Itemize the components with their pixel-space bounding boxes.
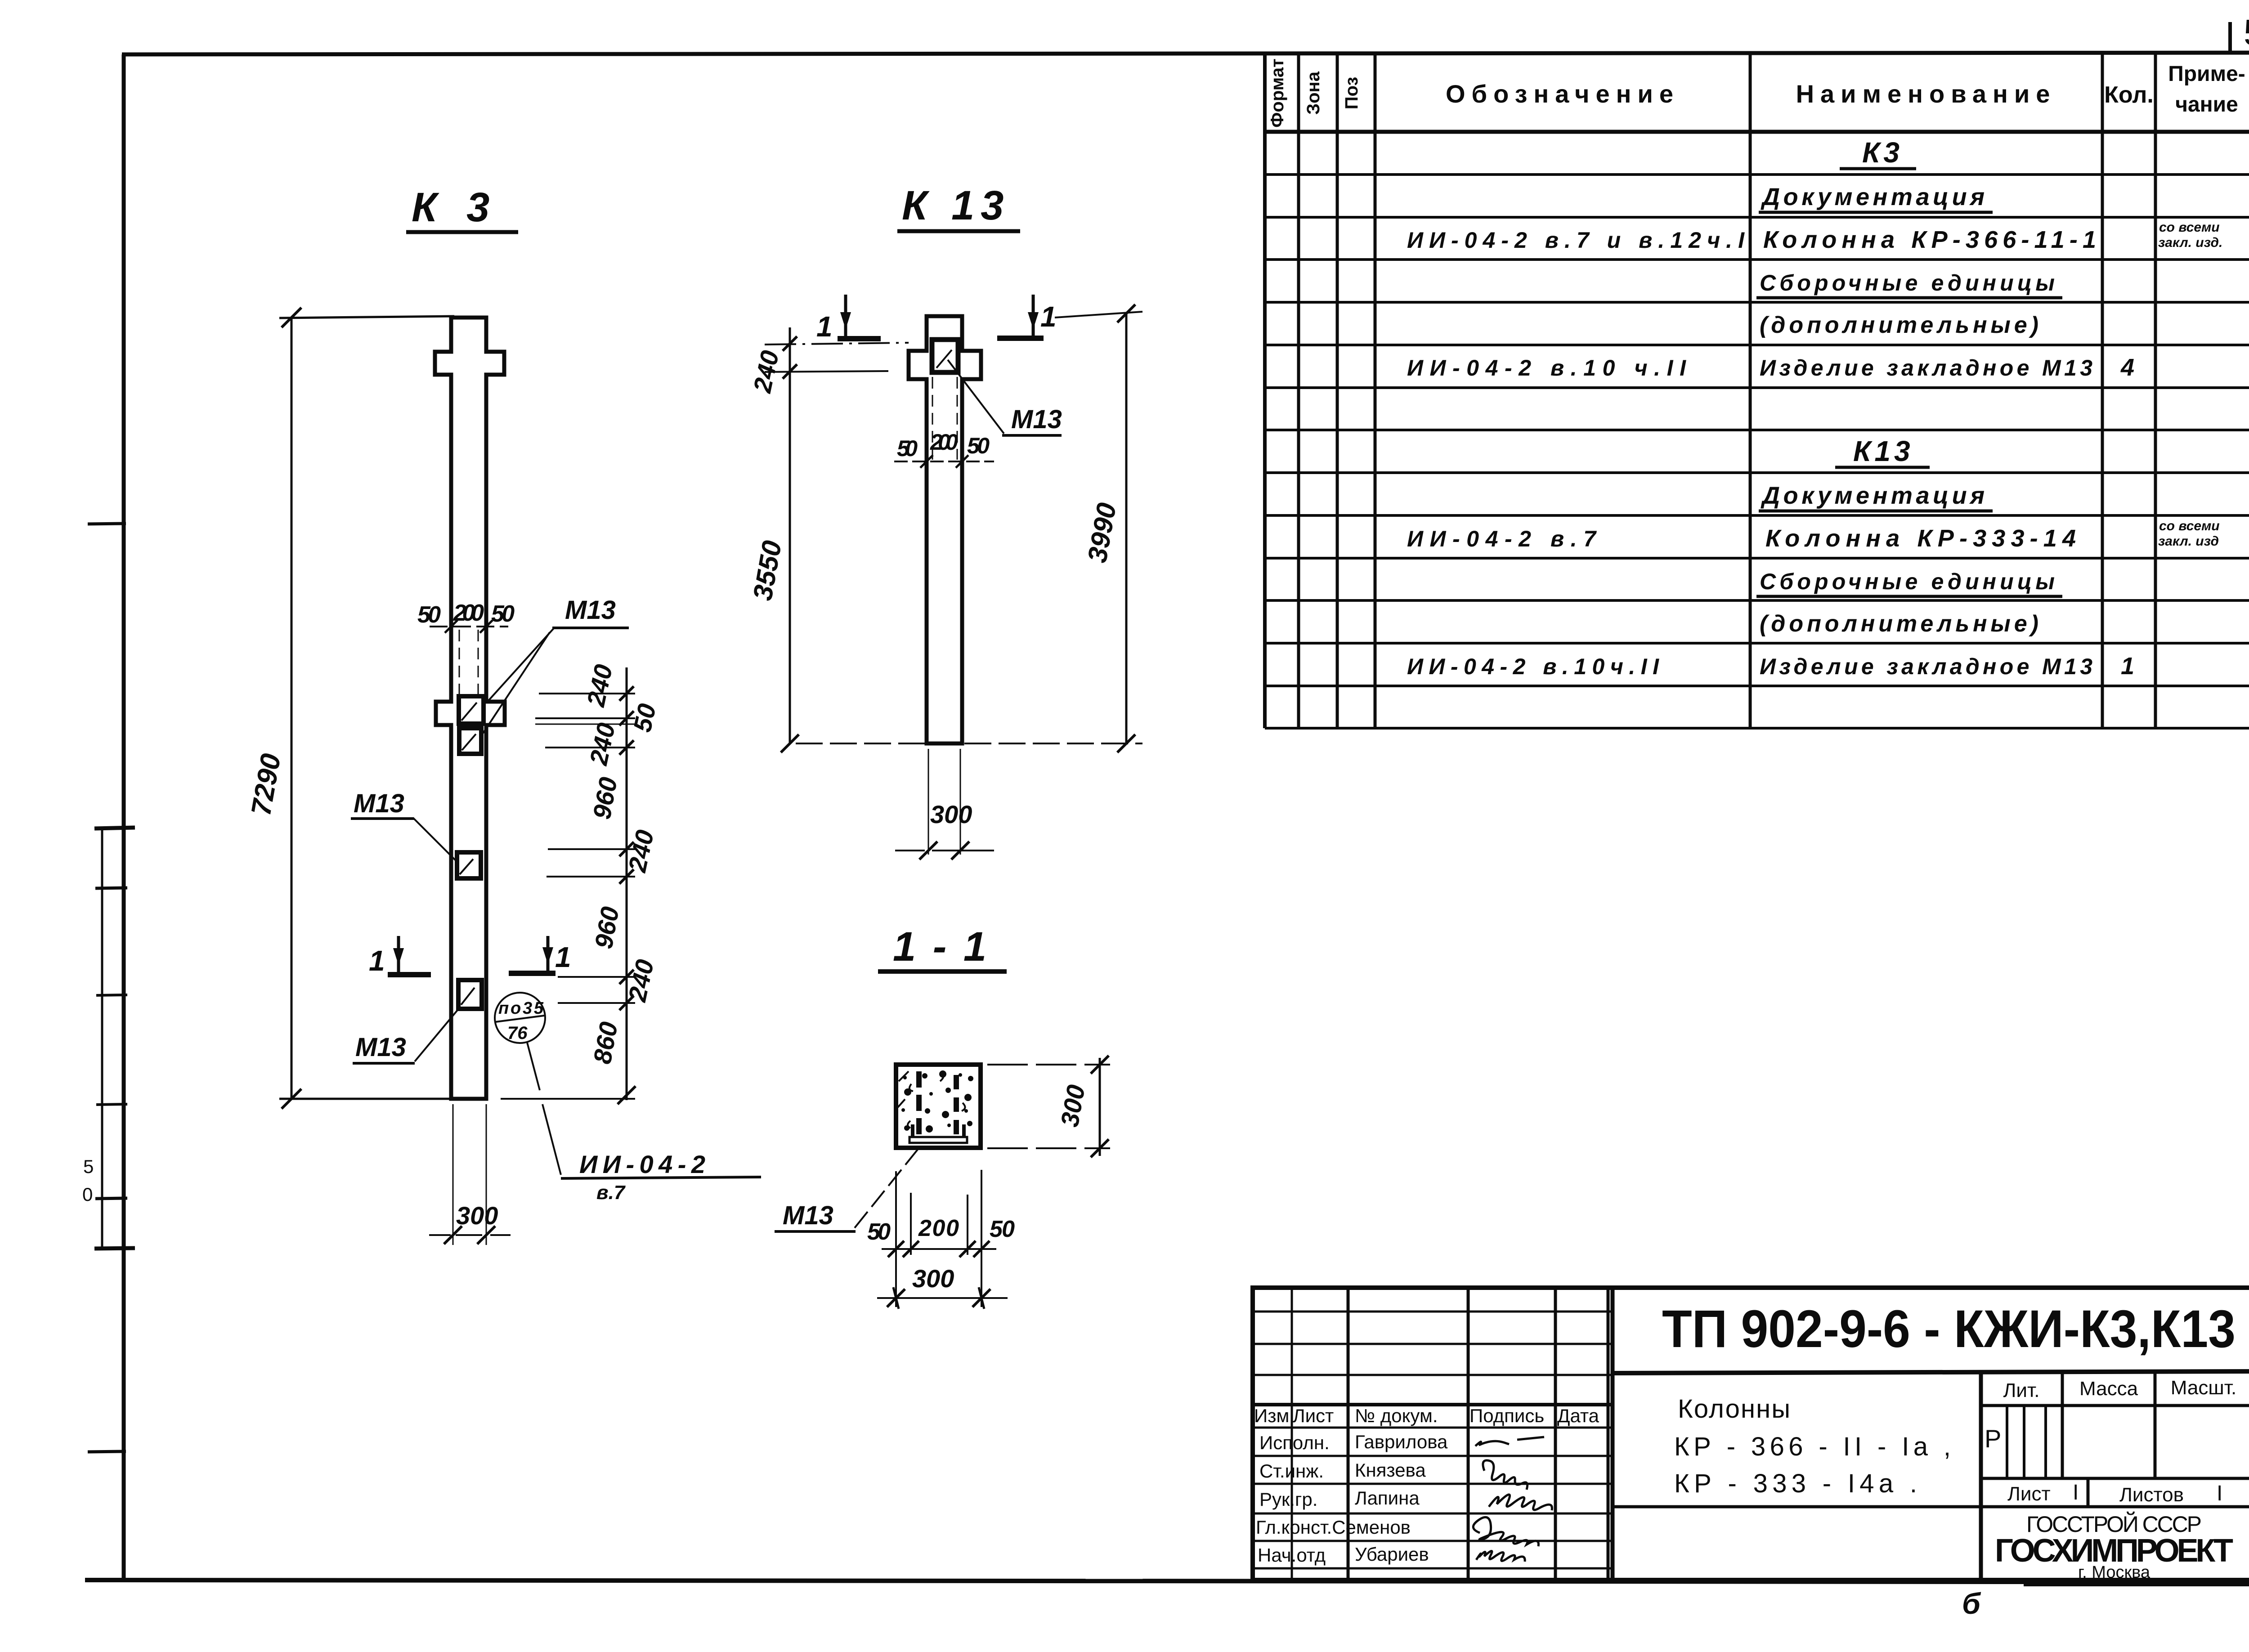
detail reference circle po35/76: [495, 993, 545, 1043]
svg-text:Обозначение: Обозначение: [1446, 80, 1680, 108]
svg-text:50: 50: [628, 701, 662, 734]
svg-text:Князева: Князева: [1355, 1459, 1426, 1481]
svg-text:50: 50: [491, 601, 515, 627]
K13 right dimension 3990: [1125, 313, 1128, 743]
svg-text:Лист: Лист: [2007, 1483, 2051, 1505]
signature rows: [1256, 1431, 1448, 1566]
svg-text:50: 50: [990, 1216, 1015, 1242]
section 1-1 bottom dimensions 50 200 50 and 300: [895, 1171, 897, 1307]
svg-text:(дополнительные): (дополнительные): [1760, 611, 2038, 637]
svg-text:1: 1: [2121, 653, 2134, 680]
svg-text:300: 300: [456, 1201, 498, 1230]
svg-text:К 3: К 3: [412, 184, 498, 230]
svg-text:Ст.инж.: Ст.инж.: [1259, 1460, 1324, 1482]
svg-text:Лит.: Лит.: [2003, 1379, 2040, 1401]
concrete texture speckles: [901, 1070, 973, 1133]
svg-text:КР - 333 - I4а .: КР - 333 - I4а .: [1674, 1469, 1917, 1498]
svg-text:закл. изд.: закл. изд.: [2158, 235, 2222, 250]
sheet number 5 top right: [2228, 22, 2232, 51]
column K13 outline: [909, 316, 981, 743]
specification table grid: [1265, 54, 2249, 728]
svg-text:1: 1: [816, 310, 833, 343]
svg-text:0: 0: [82, 1184, 93, 1205]
svg-text:Документация: Документация: [1761, 184, 1987, 210]
section 1-1 concrete square: [896, 1065, 981, 1148]
signature column header row: [1254, 1405, 1599, 1426]
left margin fold ladder: [88, 524, 135, 1452]
svg-text:М13: М13: [783, 1201, 833, 1230]
svg-text:76: 76: [507, 1023, 528, 1043]
svg-text:1: 1: [555, 941, 571, 973]
column K3 bottom edge: [451, 1097, 486, 1101]
svg-text:Р: Р: [1985, 1424, 2001, 1453]
svg-text:со всеми: со всеми: [2159, 220, 2220, 235]
svg-text:№ докум.: № докум.: [1355, 1405, 1438, 1426]
svg-text:Гаврилова: Гаврилова: [1355, 1431, 1448, 1452]
svg-text:4: 4: [2120, 354, 2134, 381]
section mark 1 right (K3): [509, 971, 556, 976]
svg-text:Рук.гр.: Рук.гр.: [1259, 1489, 1317, 1510]
svg-text:1: 1: [1040, 300, 1057, 333]
section 1-1 right dimension 300: [987, 1064, 1110, 1066]
svg-text:(дополнительные): (дополнительные): [1760, 312, 2038, 338]
embedded plate M13 in section: [909, 1137, 967, 1143]
svg-text:Формат: Формат: [1268, 58, 1287, 127]
K3 right dimension chain line: [626, 667, 628, 1100]
svg-text:К3: К3: [1862, 136, 1903, 169]
svg-text:М13: М13: [1011, 405, 1062, 434]
svg-text:Сборочные единицы: Сборочные единицы: [1760, 270, 2056, 295]
svg-text:М13: М13: [355, 1033, 406, 1062]
svg-text:Исполн.: Исполн.: [1259, 1432, 1330, 1453]
svg-text:50: 50: [867, 1219, 891, 1245]
embedded plate M13 (K13): [932, 340, 958, 372]
svg-text:Подпись: Подпись: [1469, 1405, 1544, 1426]
svg-text:Лист: Лист: [1293, 1405, 1334, 1426]
svg-text:Кол.: Кол.: [2104, 82, 2154, 108]
svg-text:К 13: К 13: [902, 183, 1010, 228]
K13 left dimensions 240 and 3550: [789, 327, 791, 743]
svg-text:I: I: [2073, 1481, 2079, 1504]
svg-text:закл. изд: закл. изд: [2158, 534, 2219, 549]
table content K13 section: [1407, 435, 2220, 680]
svg-text:б: б: [1962, 1587, 1981, 1620]
title block subject: [1674, 1394, 1951, 1498]
embedded plate M13 no.2: [459, 728, 481, 754]
svg-text:Наименование: Наименование: [1796, 80, 2056, 108]
svg-text:Документация: Документация: [1761, 482, 1987, 509]
svg-text:Сборочные единицы: Сборочные единицы: [1760, 569, 2056, 594]
svg-text:г. Москва: г. Москва: [2078, 1563, 2150, 1582]
svg-text:300: 300: [912, 1264, 954, 1293]
embedded plate M13 no.1: [459, 696, 484, 724]
svg-text:ТП 902-9-6 - КЖИ-К3,К13: ТП 902-9-6 - КЖИ-К3,К13: [1662, 1299, 2236, 1359]
section mark 1 right (K13): [997, 336, 1044, 341]
svg-text:5: 5: [83, 1156, 94, 1177]
svg-text:Приме-: Приме-: [2168, 62, 2245, 86]
svg-text:К13: К13: [1853, 435, 1914, 467]
svg-text:50: 50: [897, 436, 918, 461]
embedded plate M13 no.4: [458, 980, 482, 1009]
svg-text:200: 200: [453, 600, 484, 626]
svg-text:1: 1: [369, 945, 385, 977]
svg-text:I: I: [2217, 1482, 2222, 1505]
svg-text:200: 200: [930, 430, 958, 455]
svg-text:со всеми: со всеми: [2159, 519, 2220, 533]
svg-text:Колонны: Колонны: [1678, 1394, 1790, 1424]
svg-text:Масшт.: Масшт.: [2171, 1377, 2236, 1399]
K13 bottom dimension 300: [928, 749, 929, 855]
svg-text:Листов: Листов: [2119, 1484, 2184, 1506]
svg-text:50: 50: [417, 602, 441, 628]
svg-text:Лапина: Лапина: [1355, 1487, 1420, 1509]
svg-text:50: 50: [967, 433, 990, 458]
embedded plate M13 no.3: [457, 852, 481, 878]
svg-text:300: 300: [930, 800, 972, 828]
title block grid: [1253, 1288, 2249, 1580]
signatures squiggles: [1473, 1437, 1552, 1562]
table header labels: [1268, 58, 2245, 127]
svg-text:Дата: Дата: [1557, 1405, 1599, 1426]
svg-text:ИИ-04-2 в.10ч.II: ИИ-04-2 в.10ч.II: [1407, 654, 1659, 679]
svg-text:1 - 1: 1 - 1: [893, 924, 989, 970]
table content K3 section: [1407, 136, 2222, 381]
svg-text:Поз: Поз: [1342, 77, 1362, 110]
svg-text:5: 5: [2244, 12, 2249, 53]
dimension 7290 overall: [291, 318, 293, 1099]
K3 bottom dimension 300: [452, 1104, 454, 1245]
rebar bars dashed: [916, 1071, 922, 1139]
svg-text:Гл.конст.Семенов: Гл.конст.Семенов: [1256, 1517, 1411, 1538]
title block right headers: [2003, 1377, 2237, 1401]
svg-text:М13: М13: [565, 595, 616, 625]
svg-text:чание: чание: [2175, 93, 2238, 116]
svg-text:200: 200: [918, 1215, 959, 1241]
svg-text:в.7: в.7: [596, 1182, 626, 1204]
svg-text:Масса: Масса: [2079, 1378, 2138, 1400]
svg-text:Зона: Зона: [1304, 71, 1323, 115]
svg-text:Изм: Изм: [1254, 1405, 1289, 1426]
list / listov row: [2007, 1481, 2222, 1506]
svg-text:Нач.отд: Нач.отд: [1258, 1545, 1326, 1566]
svg-text:Убариев: Убариев: [1355, 1544, 1429, 1565]
svg-text:М13: М13: [354, 789, 404, 818]
column K3 outline: [435, 318, 505, 1099]
